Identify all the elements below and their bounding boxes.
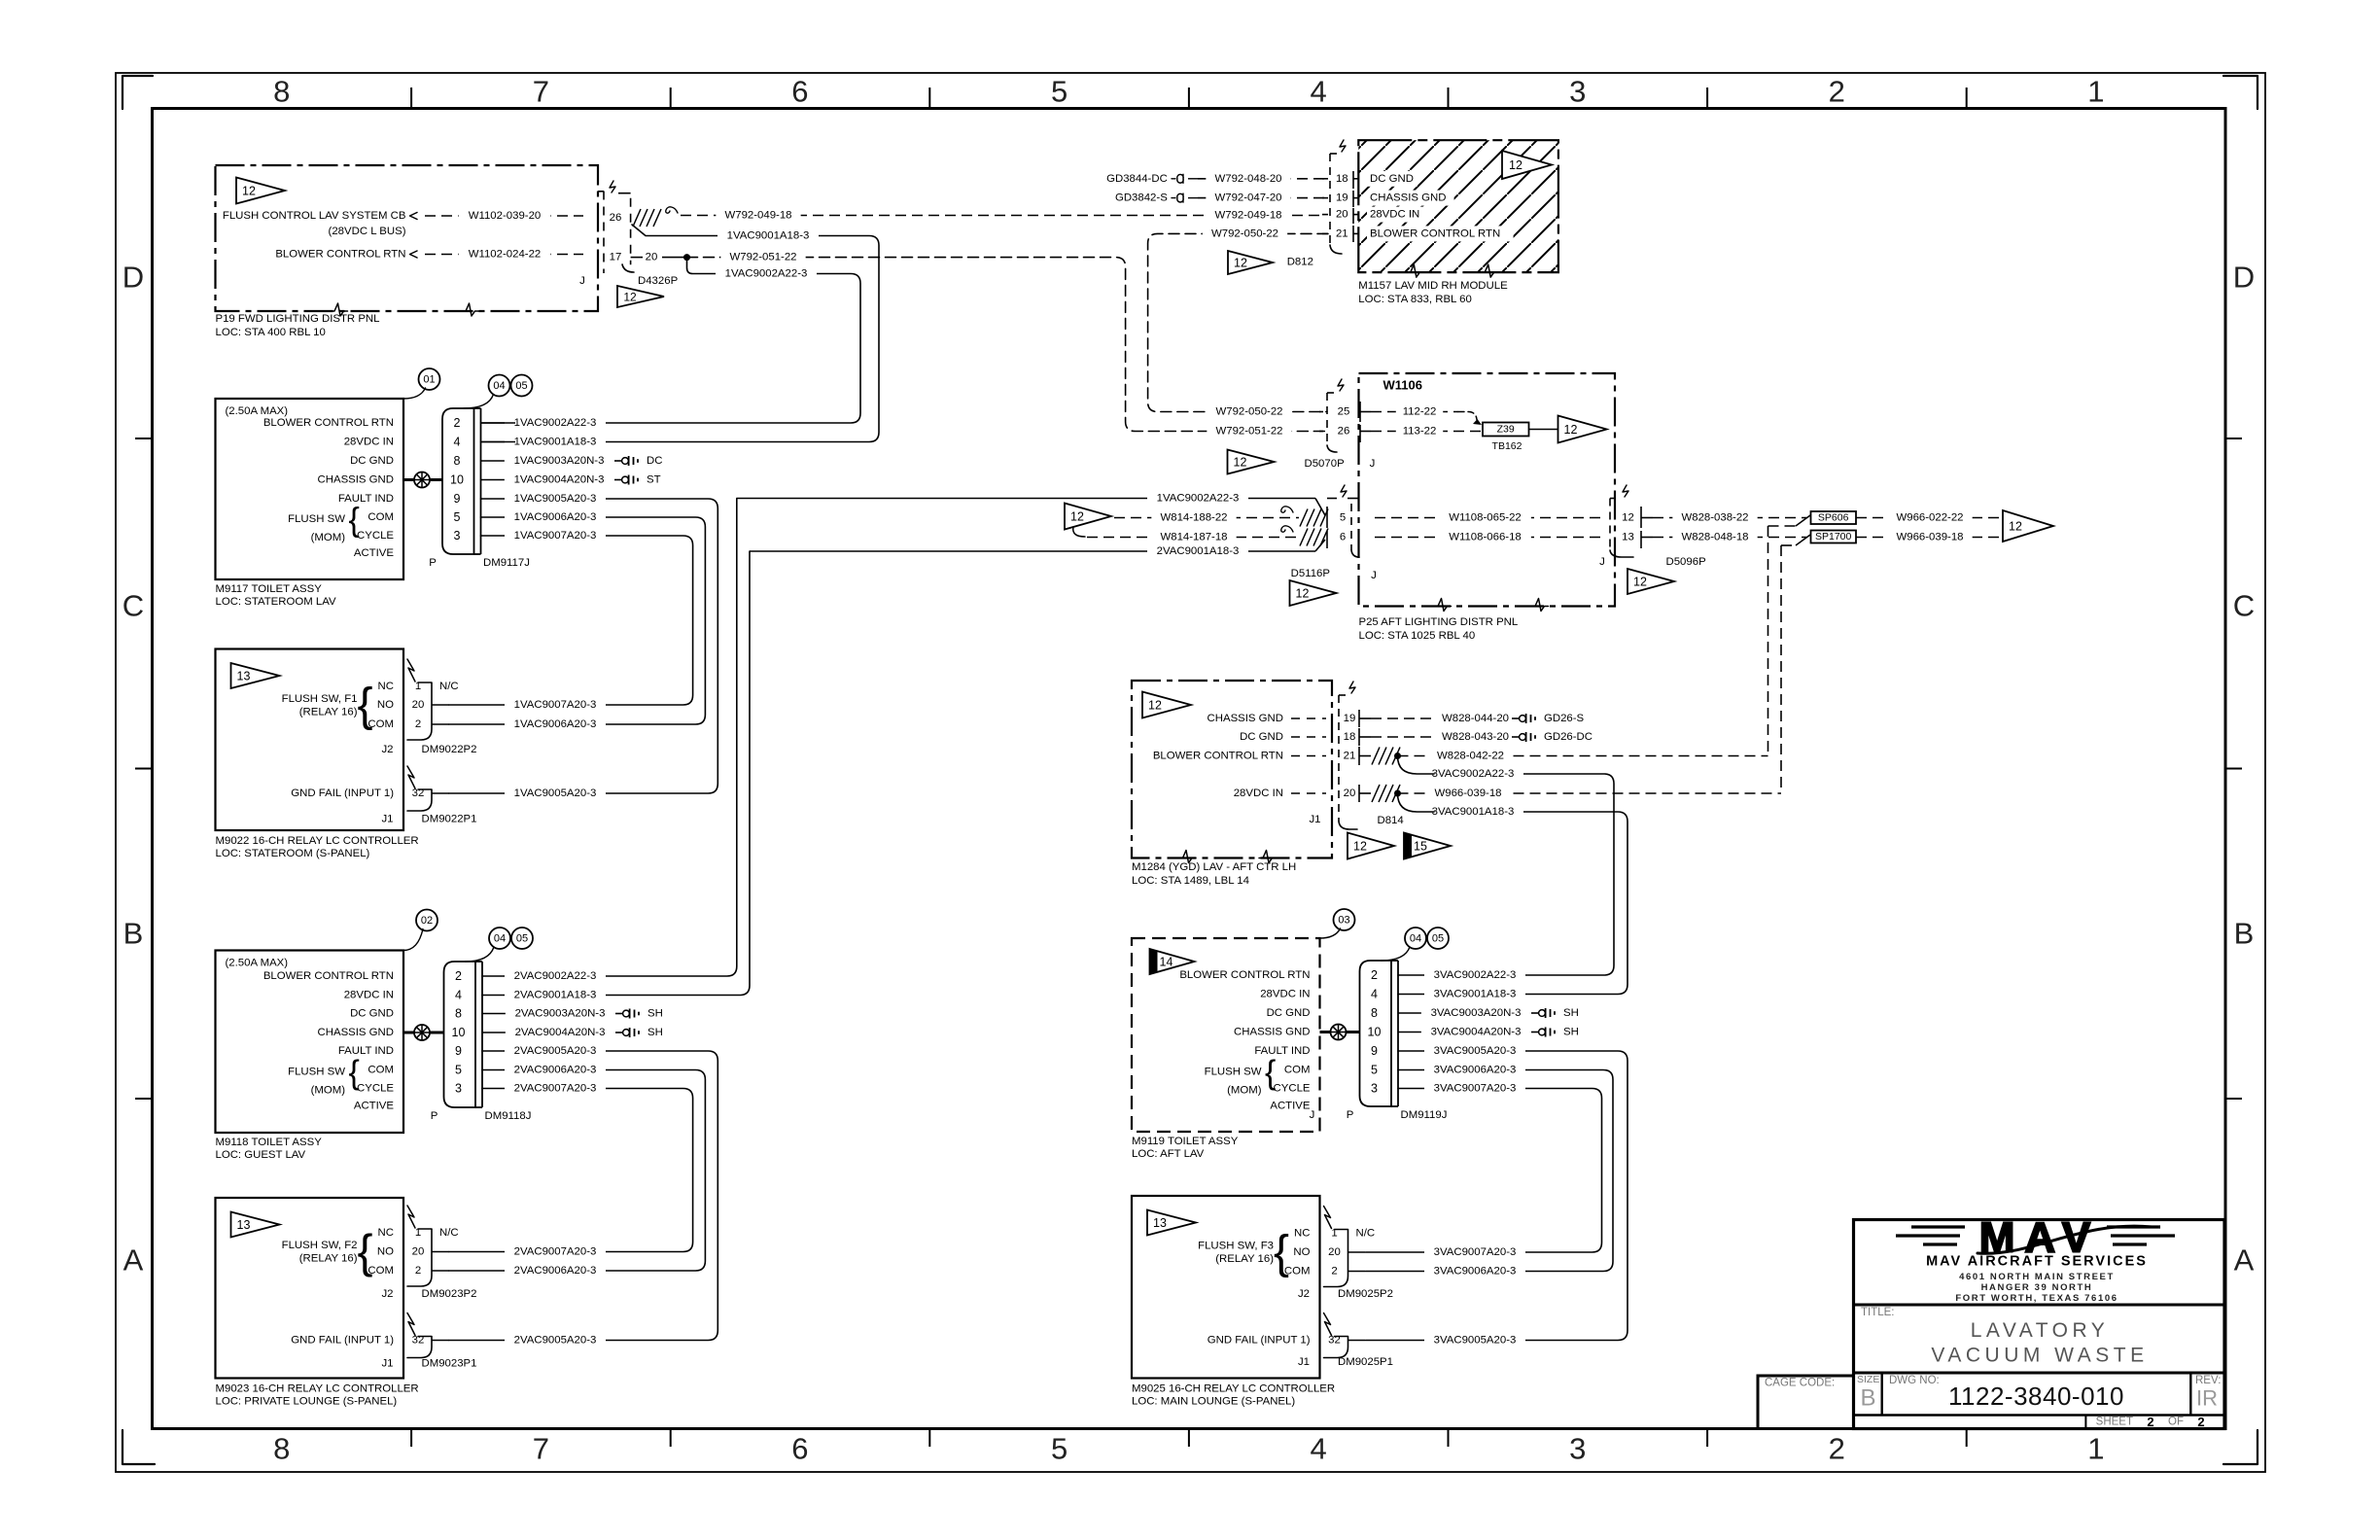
svg-text:9: 9: [454, 492, 461, 506]
svg-text:VACUUM WASTE: VACUUM WASTE: [1931, 1345, 2148, 1367]
wire 3VAC9001A18-3 from M1284 to pin 4: [1398, 812, 1627, 995]
svg-text:C: C: [2233, 589, 2255, 623]
svg-text:COM: COM: [1284, 1065, 1311, 1076]
svg-text:3VAC9005A20-3: 3VAC9005A20-3: [1434, 1335, 1517, 1347]
zone tick bottom: [1706, 1429, 1708, 1448]
svg-text:W792-048-20: W792-048-20: [1214, 173, 1281, 185]
svg-text:13: 13: [1622, 532, 1634, 543]
svg-text:13: 13: [1153, 1216, 1167, 1230]
svg-text:NC: NC: [378, 1227, 394, 1239]
svg-text:FAULT IND: FAULT IND: [338, 1045, 394, 1057]
svg-text:(28VDC L BUS): (28VDC L BUS): [329, 226, 406, 237]
svg-text:N/C: N/C: [439, 681, 459, 692]
wire 3VAC9001A18-3 drop from pin 20: [1398, 793, 1435, 812]
flag note 12 in M1157: [1502, 151, 1552, 179]
svg-text:3: 3: [1569, 1432, 1586, 1466]
svg-text:12: 12: [2009, 520, 2022, 534]
svg-text:1122-3840-010: 1122-3840-010: [1948, 1382, 2124, 1411]
splice SP1700: [1796, 535, 1810, 545]
svg-text:12: 12: [1234, 456, 1247, 470]
svg-text:B: B: [1860, 1385, 1875, 1412]
svg-text:BLOWER CONTROL RTN: BLOWER CONTROL RTN: [1370, 227, 1500, 239]
svg-text:02: 02: [421, 915, 433, 927]
svg-text:9: 9: [1371, 1044, 1378, 1058]
M1157 edge break left: [1407, 264, 1424, 277]
svg-text:DM9023P1: DM9023P1: [422, 1358, 477, 1370]
module M9022 16-CH RELAY LC CONTROLLER block: [216, 649, 404, 831]
module M1284 YGD LAV AFT CTR LH block: [1132, 681, 1332, 858]
svg-text:18: 18: [1344, 731, 1356, 743]
splice SP606: [1796, 515, 1810, 526]
svg-text:04: 04: [1410, 933, 1421, 945]
wire 1VAC9006A20-3 to M9022 pin 2: [449, 517, 705, 724]
svg-text:A: A: [123, 1243, 144, 1277]
svg-text:18: 18: [1336, 173, 1348, 185]
svg-text:ACTIVE: ACTIVE: [1270, 1101, 1311, 1112]
svg-text:2: 2: [1829, 75, 1845, 109]
M1284 edge break right: [1259, 851, 1277, 863]
wire 2VAC9007A20-3 to M9023 pin 20: [449, 1089, 693, 1252]
svg-text:A: A: [2234, 1243, 2255, 1277]
svg-text:W828-042-22: W828-042-22: [1437, 751, 1504, 762]
junction dot pin 21: [1394, 752, 1401, 759]
svg-text:J: J: [1371, 570, 1377, 581]
wire W828-042-22 riser: [1768, 525, 1797, 527]
svg-text:M9022 16-CH RELAY LC CONTROLLE: M9022 16-CH RELAY LC CONTROLLER: [216, 835, 419, 847]
svg-text:12: 12: [1070, 510, 1084, 524]
svg-text:2VAC9005A20-3: 2VAC9005A20-3: [514, 1335, 597, 1347]
svg-text:1VAC9002A22-3: 1VAC9002A22-3: [514, 417, 597, 429]
svg-text:3: 3: [1569, 75, 1586, 109]
svg-text:2VAC9001A18-3: 2VAC9001A18-3: [1157, 545, 1240, 557]
svg-text:3VAC9001A18-3: 3VAC9001A18-3: [1432, 806, 1515, 818]
svg-text:CHASSIS GND: CHASSIS GND: [1234, 1027, 1310, 1038]
svg-text:3: 3: [1371, 1082, 1378, 1096]
shield hatch at M1284 pin 21: [1372, 748, 1380, 765]
svg-text:9: 9: [455, 1044, 462, 1058]
connector D4326P bracket at P19: [603, 192, 605, 274]
svg-text:J: J: [1370, 458, 1376, 470]
junction dot pin 20: [1394, 790, 1401, 797]
M1157 row label CHASSIS GND: [1367, 191, 1454, 206]
svg-text:26: 26: [610, 212, 622, 224]
wire 2VAC9004A20N-3 to SH ground: [482, 1032, 613, 1033]
svg-text:J2: J2: [381, 744, 393, 755]
wire 113-22 from pin 26 to Z39: [1371, 431, 1483, 433]
flag note 15 at D814: [1404, 833, 1451, 859]
svg-text:2VAC9006A20-3: 2VAC9006A20-3: [514, 1065, 597, 1076]
wire W792-049-18 from P19 pin 26 to M1157 pin 20: [681, 215, 1322, 217]
zone tick bottom: [670, 1429, 672, 1448]
svg-text:OF: OF: [2168, 1417, 2184, 1428]
svg-text:(MOM): (MOM): [311, 532, 346, 543]
connector DM9119J body: [1360, 961, 1392, 1106]
svg-text:26: 26: [1338, 426, 1350, 437]
svg-text:3VAC9002A22-3: 3VAC9002A22-3: [1434, 969, 1517, 981]
svg-text:12: 12: [1564, 423, 1578, 437]
svg-text:P: P: [1347, 1109, 1354, 1121]
wire 1VAC9003A20N-3 to DC ground: [481, 460, 613, 462]
M1157 row label BLOWER CONTROL RTN: [1367, 226, 1514, 241]
callout 01 for M9117 TOILET ASSY: [419, 368, 440, 390]
wire 1VAC9002A22-3 pin2 line: [481, 422, 516, 424]
svg-text:DM9025P1: DM9025P1: [1338, 1356, 1393, 1368]
module M9023 16-CH RELAY LC CONTROLLER block: [216, 1198, 404, 1379]
svg-text:3VAC9003A20N-3: 3VAC9003A20N-3: [1431, 1007, 1522, 1019]
wire W1102-024-22: [425, 254, 583, 256]
svg-text:7: 7: [533, 75, 549, 109]
svg-text:J1: J1: [381, 814, 393, 825]
svg-text:1VAC9007A20-3: 1VAC9007A20-3: [514, 699, 597, 711]
svg-text:W1106: W1106: [1383, 378, 1422, 393]
svg-text:COM: COM: [367, 511, 394, 523]
svg-text:(MOM): (MOM): [311, 1085, 346, 1097]
zone tick bottom: [928, 1429, 930, 1448]
zone tick top: [410, 87, 412, 109]
panel P19 FWD LIGHTING DISTR PNL block: [216, 165, 599, 311]
svg-text:ACTIVE: ACTIVE: [354, 1101, 395, 1112]
wire 1VAC9002A22-3 stub at pin 2: [505, 416, 606, 430]
svg-text:LOC: GUEST LAV: LOC: GUEST LAV: [216, 1149, 306, 1161]
wire W1102-039-20: [425, 215, 583, 217]
svg-text:1VAC9006A20-3: 1VAC9006A20-3: [514, 718, 597, 730]
svg-text:{: {: [349, 1055, 360, 1092]
svg-text:MAV AIRCRAFT SERVICES: MAV AIRCRAFT SERVICES: [1926, 1254, 2148, 1270]
svg-text:SHEET: SHEET: [2096, 1417, 2133, 1428]
svg-text:3VAC9001A18-3: 3VAC9001A18-3: [1434, 989, 1517, 1000]
wire 1VAC9002A22-3 from junction to DM9117J pin 2: [482, 258, 860, 423]
M1284 edge break left: [1179, 851, 1197, 863]
svg-text:D5096P: D5096P: [1666, 556, 1706, 568]
svg-text:12: 12: [242, 185, 256, 198]
connector D814 bracket at M1284: [1338, 695, 1340, 822]
flag note 12 D5070P: [1228, 450, 1275, 474]
svg-text:21: 21: [1336, 227, 1348, 239]
zone tick left: [135, 768, 153, 770]
svg-text:SH: SH: [1563, 1027, 1579, 1038]
svg-text:1: 1: [1331, 1228, 1337, 1240]
svg-text:1VAC9006A20-3: 1VAC9006A20-3: [514, 511, 597, 523]
svg-text:12: 12: [1509, 158, 1522, 172]
cage code box: [1758, 1376, 1854, 1429]
svg-text:W1108-066-18: W1108-066-18: [1449, 532, 1522, 543]
svg-text:GND FAIL (INPUT 1): GND FAIL (INPUT 1): [291, 787, 394, 799]
svg-text:(RELAY 16): (RELAY 16): [299, 1253, 358, 1265]
P19 edge break right: [462, 303, 479, 316]
zone tick top: [670, 87, 672, 109]
svg-text:2: 2: [1331, 1266, 1337, 1277]
wire 1VAC9005A20-3 to M9022 pin 32: [449, 499, 717, 793]
svg-text:LOC: PRIVATE LOUNGE (S-PANEL): LOC: PRIVATE LOUNGE (S-PANEL): [216, 1396, 398, 1408]
svg-text:NO: NO: [377, 1246, 394, 1258]
svg-text:4: 4: [1310, 75, 1326, 109]
svg-text:112-22: 112-22: [1403, 406, 1437, 418]
svg-text:1: 1: [415, 1227, 421, 1239]
svg-text:2: 2: [2197, 1415, 2204, 1429]
svg-text:10: 10: [1368, 1026, 1382, 1039]
svg-text:P19 FWD LIGHTING DISTR PNL: P19 FWD LIGHTING DISTR PNL: [216, 313, 380, 325]
svg-text:3VAC9007A20-3: 3VAC9007A20-3: [1434, 1246, 1517, 1258]
wire W1108-066-18: [1375, 537, 1606, 539]
svg-text:W814-188-22: W814-188-22: [1160, 512, 1227, 524]
svg-text:2VAC9003A20N-3: 2VAC9003A20N-3: [515, 1008, 606, 1020]
svg-text:B: B: [123, 917, 144, 951]
callout 02 for M9118 TOILET ASSY: [416, 910, 437, 931]
svg-text:3VAC9004A20N-3: 3VAC9004A20N-3: [1431, 1027, 1522, 1038]
svg-text:32: 32: [412, 1335, 425, 1347]
module M9118 TOILET ASSY block: [216, 951, 404, 1134]
svg-text:5: 5: [454, 510, 461, 524]
svg-text:21: 21: [1344, 751, 1356, 762]
shield hatch pin 5: [1300, 509, 1308, 527]
svg-text:SH: SH: [647, 1008, 663, 1020]
svg-text:SP606: SP606: [1818, 512, 1849, 524]
svg-text:GND FAIL (INPUT 1): GND FAIL (INPUT 1): [291, 1335, 394, 1347]
svg-text:1VAC9003A20N-3: 1VAC9003A20N-3: [514, 455, 605, 467]
wire W1108-065-22: [1375, 517, 1606, 519]
title block divider logo/title: [1854, 1304, 2225, 1307]
svg-text:2VAC9007A20-3: 2VAC9007A20-3: [514, 1246, 597, 1258]
P19 row arrow stub 1: [410, 213, 418, 220]
flag note 12 D5116P: [1290, 580, 1337, 606]
svg-text:LOC: STA 1489, LBL 14: LOC: STA 1489, LBL 14: [1132, 875, 1249, 887]
svg-text:DC: DC: [647, 455, 662, 467]
svg-text:32: 32: [1328, 1335, 1341, 1347]
resistor Z39 TB162: [1483, 423, 1529, 437]
size box divider: [1880, 1373, 1882, 1416]
svg-text:1VAC9007A20-3: 1VAC9007A20-3: [514, 530, 597, 542]
svg-text:ST: ST: [647, 474, 661, 486]
svg-text:W1108-065-22: W1108-065-22: [1449, 512, 1522, 524]
svg-text:3VAC9002A22-3: 3VAC9002A22-3: [1432, 768, 1515, 780]
svg-text:W828-048-18: W828-048-18: [1681, 532, 1748, 543]
callout 04 05 for DM9118J: [489, 927, 510, 949]
svg-text:M9023 16-CH RELAY LC CONTROLLE: M9023 16-CH RELAY LC CONTROLLER: [216, 1383, 419, 1395]
svg-text:NO: NO: [1293, 1246, 1310, 1258]
zone tick bottom: [1188, 1429, 1190, 1448]
shield hatch pin 6: [1300, 529, 1308, 546]
wire 3VAC9004A20N-3 to SH ground: [1398, 1032, 1529, 1033]
svg-text:DM9023P2: DM9023P2: [422, 1288, 477, 1300]
wire 3VAC9002A22-3 drop from pin 21: [1398, 756, 1435, 775]
chassis ground at M9119 TOILET ASSY: [1320, 1031, 1360, 1033]
svg-text:2: 2: [415, 718, 421, 730]
zone tick top: [1966, 87, 1968, 109]
wire 3VAC9006A20-3 to M9025 pin 2: [1366, 1070, 1613, 1272]
svg-text:J1: J1: [381, 1358, 393, 1370]
svg-text:DC GND: DC GND: [350, 455, 394, 467]
wire W966-039-18 riser: [1781, 544, 1796, 546]
connector DM9022P2 bracket: [407, 659, 415, 682]
wire 2VAC9002A22-3 to long run riser: [482, 499, 737, 977]
svg-text:GND FAIL (INPUT 1): GND FAIL (INPUT 1): [1207, 1335, 1311, 1347]
svg-text:15: 15: [1414, 840, 1427, 854]
svg-text:J2: J2: [1298, 1288, 1310, 1300]
wire W828-043-20 to GD26-DC: [1371, 736, 1510, 738]
flag note 12 W966 destination: [2003, 510, 2053, 542]
svg-text:20: 20: [1344, 787, 1356, 799]
zone tick right: [2225, 437, 2242, 439]
svg-text:FLUSH SW, F1: FLUSH SW, F1: [282, 693, 358, 705]
svg-text:FLUSH CONTROL LAV SYSTEM CB: FLUSH CONTROL LAV SYSTEM CB: [223, 210, 406, 222]
title block outline: [1854, 1220, 2225, 1429]
svg-text:W792-050-22: W792-050-22: [1211, 227, 1278, 239]
svg-text:12: 12: [1353, 840, 1367, 854]
svg-text:2: 2: [455, 969, 462, 983]
svg-text:LAVATORY: LAVATORY: [1971, 1319, 2110, 1342]
svg-text:2: 2: [1829, 1432, 1845, 1466]
svg-text:GD26-DC: GD26-DC: [1544, 731, 1592, 743]
svg-text:{: {: [358, 680, 373, 731]
wire 1VAC9007A20-3 to M9022 pin 20: [449, 536, 693, 705]
svg-text:COM: COM: [367, 1065, 394, 1076]
wire W966-039-18 from pin 20: [1398, 792, 1782, 794]
svg-text:M9117 TOILET ASSY: M9117 TOILET ASSY: [216, 583, 323, 595]
svg-text:FLUSH SW, F2: FLUSH SW, F2: [282, 1240, 358, 1251]
connector D5096P bracket pins 12 13: [1609, 499, 1611, 551]
svg-text:2VAC9004A20N-3: 2VAC9004A20N-3: [515, 1027, 606, 1038]
svg-text:1: 1: [2087, 1432, 2104, 1466]
wire W828-048-18: [1653, 537, 1806, 539]
wire W966-039-18 right: [1856, 537, 2003, 539]
svg-text:4601 NORTH MAIN STREET: 4601 NORTH MAIN STREET: [1959, 1272, 2115, 1282]
svg-text:8: 8: [1371, 1006, 1378, 1020]
svg-text:3: 3: [455, 1082, 462, 1096]
svg-text:2VAC9001A18-3: 2VAC9001A18-3: [514, 990, 597, 1001]
svg-text:BLOWER CONTROL RTN: BLOWER CONTROL RTN: [275, 249, 405, 261]
wire 3VAC9005A20-3 to M9025 pin 32: [1366, 1051, 1627, 1341]
svg-text:GD26-S: GD26-S: [1544, 713, 1585, 724]
svg-text:4: 4: [1371, 988, 1378, 1001]
svg-text:M1284 (YGD) LAV - AFT CTR LH: M1284 (YGD) LAV - AFT CTR LH: [1132, 861, 1296, 873]
wire 1VAC9001A18-3 from D4326P to DM9117J pin 4: [482, 225, 879, 442]
flag note 12 D812: [1228, 251, 1273, 274]
svg-text:12: 12: [1148, 699, 1162, 713]
svg-text:HANGER 39 NORTH: HANGER 39 NORTH: [1981, 1282, 2093, 1293]
connector D5070P bracket pins 25 26: [1326, 393, 1328, 445]
svg-text:CHASSIS GND: CHASSIS GND: [1207, 713, 1283, 724]
svg-text:14: 14: [1160, 956, 1173, 969]
svg-text:8: 8: [455, 1007, 462, 1021]
callout 04 05 for DM9117J: [489, 375, 510, 397]
svg-text:13: 13: [237, 670, 251, 683]
connector DM9025P2 bracket: [1324, 1207, 1332, 1229]
zone tick right: [2225, 1098, 2242, 1100]
title block divider dwg/sheet: [1854, 1414, 2225, 1416]
svg-text:1VAC9005A20-3: 1VAC9005A20-3: [514, 493, 597, 505]
svg-text:BLOWER CONTROL RTN: BLOWER CONTROL RTN: [1153, 751, 1283, 762]
zone tick right: [2225, 768, 2242, 770]
svg-text:BLOWER CONTROL RTN: BLOWER CONTROL RTN: [1179, 969, 1310, 981]
svg-text:BLOWER CONTROL RTN: BLOWER CONTROL RTN: [263, 970, 394, 982]
svg-text:J2: J2: [381, 1288, 393, 1300]
title block divider title/dwg: [1854, 1372, 2225, 1375]
svg-text:2: 2: [2147, 1415, 2153, 1429]
svg-text:28VDC IN: 28VDC IN: [1370, 209, 1419, 221]
wire 3VAC9003A20N-3 to SH ground: [1398, 1012, 1529, 1014]
svg-text:SIZE: SIZE: [1857, 1374, 1879, 1385]
svg-text:5: 5: [1051, 75, 1067, 109]
svg-text:D5116P: D5116P: [1291, 568, 1330, 579]
svg-text:J: J: [579, 275, 585, 287]
wire W792-051-22 dashed from P19 pin 20 junction: [662, 257, 687, 259]
wire W814-187-18: [1087, 537, 1299, 539]
svg-text:2VAC9006A20-3: 2VAC9006A20-3: [514, 1265, 597, 1277]
svg-text:{: {: [1274, 1227, 1289, 1278]
svg-text:NC: NC: [378, 681, 394, 692]
svg-text:CHASSIS GND: CHASSIS GND: [318, 1027, 394, 1038]
svg-text:28VDC IN: 28VDC IN: [344, 437, 394, 448]
svg-text:12: 12: [623, 291, 637, 304]
module M9119 TOILET ASSY block: [1132, 938, 1320, 1132]
P19 row arrow stub 2: [410, 251, 418, 258]
zone tick bottom: [410, 1429, 412, 1448]
zone tick left: [135, 1098, 153, 1100]
svg-text:TB162: TB162: [1492, 440, 1522, 452]
svg-text:P: P: [429, 557, 437, 569]
wire 2VAC9005A20-3 to M9023 pin 32: [449, 1051, 717, 1341]
svg-text:28VDC IN: 28VDC IN: [1260, 989, 1310, 1000]
inner drawing frame: [153, 109, 2226, 1429]
MAV logo: [1896, 1214, 2175, 1262]
svg-text:D5070P: D5070P: [1305, 458, 1345, 470]
corner trim mark top-right: [2223, 76, 2257, 109]
wire W792-048-20: [1198, 178, 1328, 180]
svg-text:1VAC9002A22-3: 1VAC9002A22-3: [1157, 493, 1240, 505]
svg-text:1VAC9004A20N-3: 1VAC9004A20N-3: [514, 474, 605, 486]
svg-text:1: 1: [2087, 75, 2104, 109]
module M9025 16-CH RELAY LC CONTROLLER block: [1132, 1196, 1320, 1379]
corner trim mark top-left: [122, 76, 153, 109]
svg-text:8: 8: [273, 1432, 290, 1466]
connector DM9025P1 bracket: [1324, 1313, 1332, 1336]
svg-text:REV:: REV:: [2195, 1375, 2221, 1386]
svg-text:SH: SH: [647, 1027, 663, 1038]
connector DM9022P1 bracket: [407, 766, 415, 788]
svg-text:W828-044-20: W828-044-20: [1442, 713, 1509, 724]
wire W828-044-20 to GD26-S: [1371, 717, 1510, 719]
svg-text:NC: NC: [1294, 1228, 1310, 1240]
svg-text:LOC: MAIN LOUNGE (S-PANEL): LOC: MAIN LOUNGE (S-PANEL): [1132, 1396, 1295, 1408]
svg-text:LOC: STA 833, RBL 60: LOC: STA 833, RBL 60: [1358, 294, 1472, 305]
svg-text:25: 25: [1338, 406, 1350, 418]
svg-text:CHASSIS GND: CHASSIS GND: [1370, 192, 1446, 204]
svg-text:1VAC9005A20-3: 1VAC9005A20-3: [514, 787, 597, 799]
svg-text:DM9022P2: DM9022P2: [422, 744, 477, 755]
svg-text:D4326P: D4326P: [638, 275, 678, 287]
module M9117 TOILET ASSY block: [216, 399, 404, 579]
svg-text:N/C: N/C: [1356, 1228, 1376, 1240]
M1157 row label DC GND: [1367, 171, 1417, 187]
svg-text:FORT WORTH, TEXAS 76106: FORT WORTH, TEXAS 76106: [1955, 1293, 2117, 1304]
svg-text:W966-022-22: W966-022-22: [1896, 512, 1963, 524]
svg-text:(2.50A MAX): (2.50A MAX): [226, 958, 289, 969]
svg-text:J: J: [1599, 556, 1605, 568]
svg-text:20: 20: [412, 699, 425, 711]
svg-text:M9119 TOILET ASSY: M9119 TOILET ASSY: [1132, 1136, 1239, 1147]
chassis ground at M9118 TOILET ASSY: [403, 1032, 444, 1034]
panel P25 W1106 block: [1359, 373, 1616, 607]
svg-text:W792-049-18: W792-049-18: [1214, 210, 1281, 222]
flag note 13 in M9023 16-CH RELAY LC CONTROLLER: [231, 1212, 280, 1238]
svg-text:(RELAY 16): (RELAY 16): [1215, 1253, 1274, 1265]
svg-text:Z39: Z39: [1497, 424, 1515, 436]
svg-text:4: 4: [454, 436, 461, 449]
svg-text:DC GND: DC GND: [1267, 1007, 1311, 1019]
svg-text:03: 03: [1338, 915, 1349, 927]
wire W814-188-22: [1114, 517, 1299, 519]
zone tick top: [1188, 87, 1190, 109]
